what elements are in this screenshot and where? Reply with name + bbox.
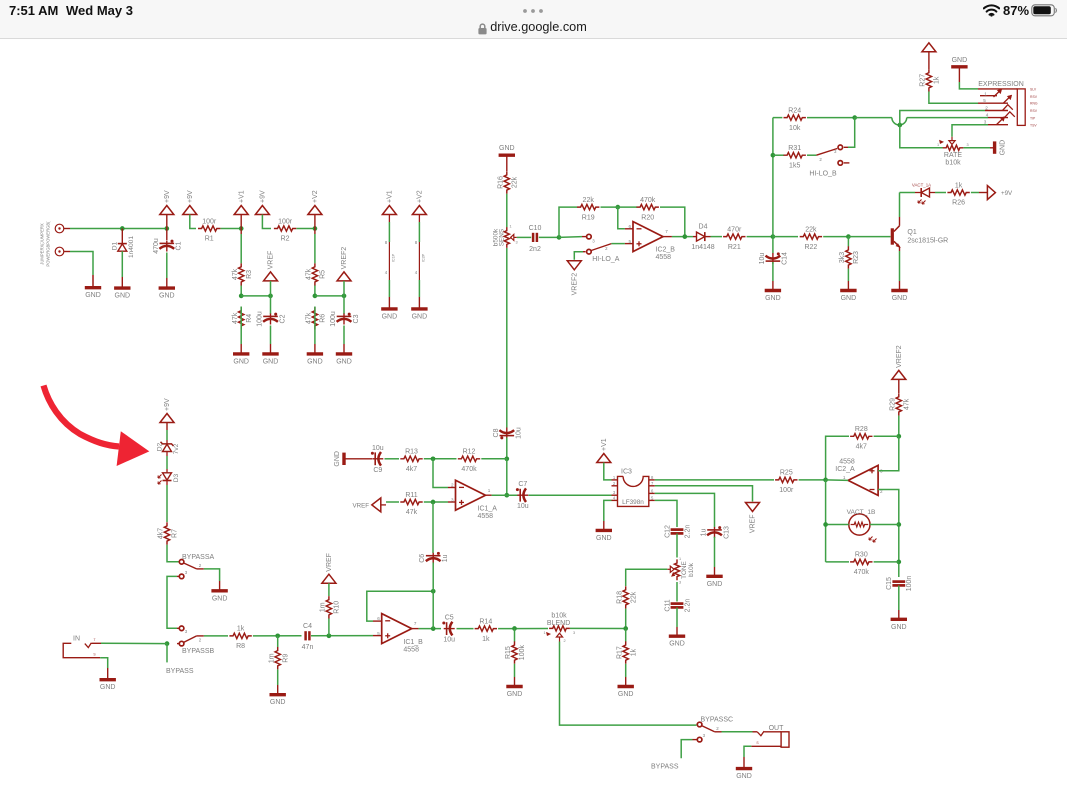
wire +9V rail (70, 228, 167, 230)
svg-text:2: 2 (716, 726, 719, 731)
svg-text:GND: GND (336, 358, 352, 365)
svg-text:R31: R31 (788, 145, 801, 152)
wire (166, 229, 168, 241)
svg-text:100r: 100r (202, 218, 217, 225)
wire (373, 635, 382, 637)
wire (826, 524, 849, 526)
svg-text:T: T (93, 638, 95, 642)
wire hop over (855, 118, 988, 125)
svg-text:10u: 10u (759, 253, 766, 265)
wire (747, 236, 773, 238)
LED D3 (158, 469, 180, 485)
svg-text:GND: GND (707, 581, 723, 588)
wire (314, 229, 316, 264)
svg-text:R18: R18 (616, 591, 623, 604)
svg-text:3: 3 (966, 143, 968, 147)
IC supply pins IC2P (415, 215, 426, 309)
resistor R19 22k (577, 197, 599, 221)
svg-text:+9V: +9V (164, 398, 171, 411)
wire (604, 463, 612, 480)
svg-text:IC1_B: IC1_B (403, 639, 423, 646)
svg-text:TSV: TSV (1030, 123, 1037, 127)
svg-text:IC2_A: IC2_A (835, 466, 855, 473)
svg-text:6: 6 (629, 224, 632, 229)
svg-text:6: 6 (377, 616, 380, 621)
wire emitter (899, 251, 901, 281)
svg-text:VREF: VREF (352, 502, 369, 509)
supply +9V (255, 190, 269, 214)
svg-text:1: 1 (543, 631, 545, 635)
svg-text:VREF: VREF (326, 553, 333, 572)
svg-text:7: 7 (414, 621, 417, 626)
svg-text:POWERGBPOWERGB(: POWERGBPOWERGB( (46, 221, 51, 267)
wire VREF2 node (315, 295, 344, 297)
svg-text:JUMPERX(JUMPERX: JUMPERX(JUMPERX (40, 223, 45, 265)
svg-text:GND: GND (334, 451, 341, 467)
svg-text:1k5: 1k5 (789, 162, 800, 169)
ground (233, 354, 249, 366)
svg-text:3: 3 (185, 629, 188, 634)
wire (660, 207, 685, 237)
connector IN jack (63, 636, 101, 658)
svg-text:1: 1 (843, 475, 846, 480)
svg-text:D2: D2 (157, 442, 164, 451)
wire (240, 286, 242, 296)
resistor R14 1k (475, 618, 497, 642)
wire (874, 561, 899, 563)
op-amp IC1_B 4558 (377, 614, 423, 654)
svg-text:47k: 47k (903, 398, 910, 410)
wire (343, 296, 345, 314)
svg-text:1: 1 (613, 475, 616, 480)
wire long vertical to C8 (506, 248, 508, 428)
wire (825, 480, 827, 562)
wire (506, 459, 508, 495)
resistor R25 100r (775, 470, 797, 494)
wire (277, 669, 279, 694)
IC IC3 LF398n sample-and-hold (612, 468, 655, 506)
svg-text:GND: GND (618, 691, 634, 698)
svg-text:R13: R13 (405, 449, 418, 456)
wire junction (313, 294, 318, 299)
ground (618, 687, 634, 699)
svg-text:2sc1815l-GR: 2sc1815l-GR (907, 238, 948, 245)
resistor R30 470k (850, 552, 872, 576)
wire junction (327, 633, 332, 638)
wire (92, 275, 94, 288)
supply +V1 (382, 190, 396, 214)
svg-text:+V2: +V2 (417, 190, 424, 203)
svg-text:R14: R14 (479, 618, 492, 625)
ground (840, 291, 856, 303)
wire (848, 118, 855, 148)
wire to VREF2 (574, 252, 583, 260)
connector X1 power jack (40, 221, 70, 267)
svg-text:10u: 10u (372, 445, 384, 452)
wire (603, 521, 605, 530)
wire (344, 458, 372, 460)
supply VREF2 (567, 261, 581, 296)
supply VREF left arrow (352, 498, 386, 512)
wire (676, 608, 678, 637)
wire (601, 206, 638, 208)
svg-text:BYPASS: BYPASS (651, 764, 679, 771)
svg-text:IN: IN (73, 636, 80, 643)
wire (799, 479, 826, 481)
wire (928, 52, 930, 69)
supply VREF (322, 553, 336, 583)
svg-text:S: S (756, 741, 759, 745)
svg-text:b10k: b10k (551, 613, 567, 620)
svg-text:3k3: 3k3 (839, 252, 846, 263)
wire junction (896, 434, 901, 439)
svg-text:GND: GND (507, 691, 523, 698)
wire to jack pin5 (929, 92, 978, 104)
wire (711, 236, 723, 238)
svg-text:22k: 22k (805, 226, 817, 233)
svg-text:7: 7 (651, 481, 654, 486)
svg-text:47k: 47k (232, 312, 239, 324)
wire (270, 326, 272, 354)
svg-text:S: S (93, 652, 96, 656)
capacitor C14 10u (759, 252, 789, 265)
svg-text:1m: 1m (268, 653, 275, 663)
wire (506, 194, 508, 228)
ground (262, 354, 278, 366)
wire (314, 307, 316, 330)
svg-text:R9: R9 (282, 654, 289, 663)
wire (424, 458, 457, 460)
svg-text:LF398n: LF398n (622, 499, 644, 506)
ground (891, 619, 907, 631)
svg-text:4k7: 4k7 (406, 466, 417, 473)
svg-text:1k: 1k (630, 648, 637, 656)
wire (672, 236, 693, 238)
wire (240, 307, 242, 330)
svg-text:TIP: TIP (1030, 116, 1036, 120)
wire (166, 456, 168, 469)
ground (669, 636, 685, 648)
svg-text:SENS: SENS (499, 229, 506, 246)
wire (990, 147, 995, 149)
svg-text:+V1: +V1 (387, 190, 394, 203)
wire junction (239, 226, 244, 231)
svg-text:R8: R8 (236, 643, 245, 650)
wire (517, 236, 531, 238)
svg-text:4: 4 (986, 113, 989, 118)
svg-text:R25: R25 (780, 470, 793, 477)
wire (373, 620, 382, 622)
resistor R2 100r (274, 218, 296, 242)
supply VREF2 (337, 247, 351, 281)
diode D4 1n4148 (691, 224, 714, 251)
svg-text:4558: 4558 (839, 458, 855, 465)
svg-text:RSV: RSV (1030, 95, 1038, 99)
svg-text:C13: C13 (723, 526, 730, 539)
wire (219, 581, 221, 591)
svg-text:EXPRESSION: EXPRESSION (978, 81, 1024, 88)
wire junction (852, 115, 857, 120)
svg-text:GND: GND (382, 313, 398, 320)
resistor R5 47k (306, 263, 327, 285)
svg-text:1n4148: 1n4148 (691, 244, 714, 251)
resistor R15 100k (505, 641, 526, 663)
svg-text:1n4001: 1n4001 (128, 236, 135, 258)
wire (221, 228, 242, 230)
svg-text:4: 4 (613, 495, 616, 500)
wire (663, 236, 672, 238)
ground (85, 288, 101, 300)
ground (736, 769, 752, 781)
wire (744, 746, 751, 768)
potentiometer BLEND b10k (543, 613, 575, 643)
svg-text:C7: C7 (518, 481, 527, 488)
capacitor C13 1u (701, 526, 731, 539)
wire junction (342, 294, 347, 299)
svg-text:8: 8 (651, 475, 654, 480)
wire (448, 501, 456, 503)
svg-text:R5: R5 (320, 270, 327, 279)
wire pin8 out (655, 479, 774, 481)
svg-text:RSV: RSV (1030, 109, 1038, 113)
svg-text:1: 1 (509, 225, 511, 229)
svg-text:GND: GND (736, 773, 752, 780)
capacitor C1 470u (153, 238, 183, 254)
svg-text:3: 3 (834, 149, 837, 154)
wire junction (846, 234, 851, 239)
wire (676, 534, 678, 558)
wire junction (823, 522, 828, 527)
svg-text:HI-LO_A: HI-LO_A (592, 256, 620, 263)
supply VREF2 (892, 345, 906, 379)
svg-text:C12: C12 (664, 525, 671, 538)
svg-text:10u: 10u (517, 503, 529, 510)
svg-text:R21: R21 (728, 244, 741, 251)
wire (899, 281, 901, 291)
wire (432, 563, 434, 592)
svg-text:2n2: 2n2 (529, 246, 541, 253)
ground (506, 687, 522, 699)
wire (121, 251, 123, 288)
resistor R22 22k (800, 226, 822, 250)
wire (625, 664, 627, 687)
wire junction (275, 633, 280, 638)
wire (204, 635, 228, 637)
supply +9V (183, 190, 197, 214)
svg-text:470k: 470k (640, 197, 656, 204)
wire (898, 416, 900, 437)
wire junction (313, 226, 318, 231)
wire to inverting input (618, 207, 625, 229)
svg-text:C10: C10 (529, 225, 542, 232)
svg-text:5: 5 (377, 631, 380, 636)
wire junction (431, 626, 436, 631)
wire pin4 to gnd (604, 500, 612, 521)
wire (166, 253, 168, 288)
svg-text:R23: R23 (853, 251, 860, 264)
svg-text:22k: 22k (511, 176, 518, 188)
resistor R10 1m (320, 596, 341, 618)
ground (951, 57, 967, 67)
op-amp IC2_A 4558 (835, 458, 883, 495)
wire (514, 664, 516, 687)
wire junction (896, 522, 901, 527)
svg-text:3: 3 (679, 581, 681, 585)
ground (334, 451, 344, 467)
wire junction (512, 626, 517, 631)
ground (765, 291, 781, 303)
wire (296, 228, 315, 230)
wire junction (771, 234, 776, 239)
svg-text:1u: 1u (442, 554, 449, 562)
svg-text:2: 2 (605, 246, 608, 251)
wire (481, 458, 507, 460)
resistor R21 470r (723, 226, 745, 250)
wire to IC3 pin3 (529, 494, 612, 496)
svg-text:IC2P: IC2P (422, 253, 426, 262)
wire junction (771, 153, 776, 158)
wire (514, 629, 516, 642)
svg-text:1m: 1m (320, 602, 327, 612)
wire (823, 236, 848, 238)
svg-text:2: 2 (985, 106, 988, 111)
svg-text:b10k: b10k (688, 562, 695, 577)
svg-text:22k: 22k (583, 197, 595, 204)
capacitor C6 1u (419, 552, 449, 564)
svg-text:R11: R11 (405, 492, 417, 499)
wire (204, 569, 220, 581)
capacitor C8 10u (493, 427, 523, 439)
resistor R1 100r (198, 218, 220, 242)
wire (900, 192, 916, 194)
wire (935, 192, 946, 194)
svg-text:GND: GND (270, 699, 286, 706)
ground (307, 354, 323, 366)
wire (432, 502, 434, 553)
svg-text:RNG: RNG (1030, 102, 1038, 106)
svg-text:5: 5 (983, 98, 986, 103)
wire BYPASS stub (681, 740, 692, 759)
wire junction (557, 235, 562, 240)
wire (457, 628, 474, 630)
svg-text:3: 3 (515, 241, 517, 245)
wire to inverting input (433, 459, 448, 488)
svg-text:5: 5 (629, 239, 632, 244)
svg-text:+V2: +V2 (312, 190, 319, 203)
wire (328, 583, 330, 596)
wire (773, 154, 784, 156)
svg-text:SLV: SLV (1030, 88, 1037, 92)
svg-text:8: 8 (385, 240, 388, 245)
wire (253, 635, 302, 637)
wire junction (623, 626, 628, 631)
resistor R4 47k (232, 307, 253, 329)
svg-text:R3: R3 (246, 270, 253, 279)
supply +9V (922, 43, 936, 52)
svg-text:100u: 100u (257, 311, 264, 327)
wire (328, 619, 330, 636)
svg-text:3: 3 (592, 239, 595, 244)
capacitor C4 47n (302, 623, 314, 651)
wire BYPASS stub (166, 644, 168, 663)
svg-text:GND: GND (891, 624, 907, 631)
svg-text:100n: 100n (906, 576, 913, 592)
wire junction (897, 123, 902, 128)
wire (807, 117, 855, 119)
svg-text:R10: R10 (334, 601, 341, 614)
ground (100, 680, 116, 692)
wire feedback (367, 591, 433, 621)
svg-text:2.2n: 2.2n (684, 599, 691, 613)
wire (270, 296, 272, 314)
wire output (826, 479, 849, 482)
net label BYPASS (651, 764, 679, 771)
svg-text:4: 4 (385, 270, 388, 275)
svg-text:R22: R22 (804, 244, 817, 251)
resistor R13 4k7 (400, 449, 422, 473)
svg-text:1u: 1u (701, 529, 708, 537)
LED VACT_1A (912, 183, 935, 204)
svg-text:470u: 470u (153, 238, 160, 254)
svg-text:47k: 47k (232, 268, 239, 280)
svg-text:R1: R1 (205, 236, 214, 243)
wire junction (896, 560, 901, 565)
wire (625, 629, 627, 642)
svg-text:2: 2 (199, 638, 202, 643)
wire (311, 635, 373, 637)
wire (240, 330, 242, 354)
wire (190, 215, 196, 229)
svg-text:C2: C2 (279, 314, 286, 323)
svg-text:+9V: +9V (164, 190, 171, 203)
wire (385, 458, 400, 460)
svg-text:GND: GND (100, 684, 116, 691)
svg-text:GND: GND (263, 358, 279, 365)
svg-text:R24: R24 (788, 107, 801, 114)
wire junction (615, 205, 620, 210)
svg-text:R19: R19 (582, 214, 595, 221)
wire junction (431, 456, 436, 461)
svg-text:2: 2 (199, 563, 202, 568)
resistor R18 22k (616, 586, 637, 608)
svg-text:GND: GND (999, 140, 1006, 156)
svg-text:VREF: VREF (750, 515, 757, 534)
wire junction (431, 500, 436, 505)
svg-text:C8: C8 (493, 428, 500, 437)
capacitor C2 100u (257, 311, 287, 327)
svg-text:IC3: IC3 (621, 468, 632, 475)
svg-text:2: 2 (613, 481, 616, 486)
wire (386, 501, 399, 503)
svg-text:2: 2 (451, 483, 454, 488)
svg-text:1k: 1k (955, 182, 963, 189)
wire feedback up (559, 207, 577, 237)
svg-text:BYPASS: BYPASS (166, 668, 194, 675)
ground (499, 145, 515, 155)
capacitor C5 10u (442, 615, 455, 644)
svg-text:470r: 470r (727, 226, 742, 233)
svg-text:R6: R6 (320, 314, 327, 323)
svg-text:GND: GND (412, 313, 428, 320)
svg-text:GND: GND (765, 295, 781, 302)
svg-text:47k: 47k (306, 268, 313, 280)
wire (498, 628, 548, 630)
svg-text:C9: C9 (373, 467, 382, 474)
resistor R6 47k (306, 307, 327, 329)
wire (167, 545, 179, 562)
resistor R12 470k (458, 449, 480, 473)
wire (625, 228, 633, 230)
